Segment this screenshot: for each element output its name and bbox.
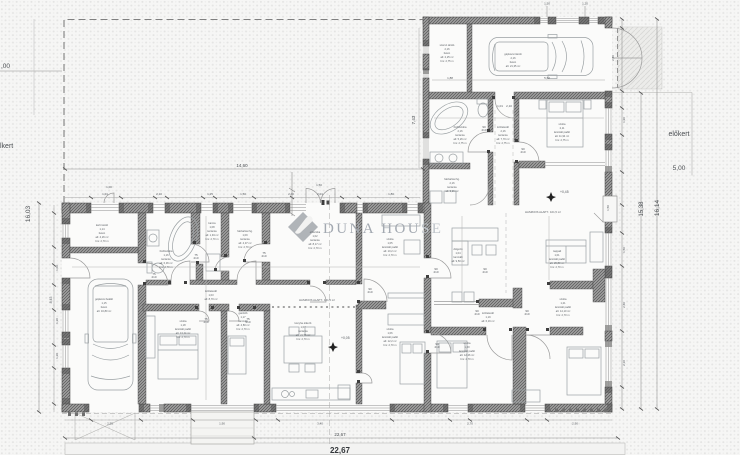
building interior white: upper wing	[423, 17, 612, 213]
svg-text:lkert: lkert	[0, 143, 13, 150]
door: corridor end to bedroom3	[364, 279, 387, 302]
terrace	[191, 412, 254, 444]
door: bedroomE	[526, 335, 550, 359]
wall: lower wing bottom	[62, 404, 89, 412]
svg-text:22,67: 22,67	[330, 446, 351, 455]
svg-text:15,38: 15,38	[639, 201, 645, 217]
boundary dashed	[64, 20, 423, 204]
window: garage top 3	[589, 19, 598, 23]
svg-text:2,40: 2,40	[288, 192, 294, 196]
dim: left 16,03	[38, 203, 40, 412]
wall: living|bedroom3 column	[356, 213, 362, 284]
svg-text:HASZNOS ALAPT.: 101,5 m²: HASZNOS ALAPT.: 101,5 m²	[525, 210, 561, 214]
slider corridor west	[434, 302, 479, 305]
wall: lower wing left	[62, 203, 70, 224]
dim: left inner col	[53, 205, 55, 412]
wall: bath|hall upper	[488, 99, 493, 132]
window: upper left wall	[424, 46, 428, 54]
kitchen counter	[272, 385, 350, 400]
svg-text:210: 210	[151, 275, 156, 279]
tick marks	[37, 18, 659, 440]
dim: bottom 22,67	[65, 437, 618, 439]
svg-text:210: 210	[482, 270, 487, 274]
wall: wc|laundry lower	[221, 213, 229, 257]
door: garage double to driveway	[612, 28, 642, 88]
bed 2	[228, 336, 246, 374]
svg-text:8,45: 8,45	[49, 297, 53, 304]
dim: garage left 7,43	[418, 28, 420, 168]
svg-text:210: 210	[474, 312, 479, 316]
washbasin upper	[430, 152, 463, 164]
front yard line vertical	[691, 93, 693, 176]
bed D	[437, 341, 467, 388]
svg-text:1,01: 1,01	[497, 104, 503, 108]
door: hall to bath upper	[468, 132, 488, 152]
wall: carport right	[138, 213, 146, 263]
door: bedroom2	[229, 311, 239, 321]
svg-text:2,40: 2,40	[611, 55, 615, 61]
wall: lower wing top	[62, 203, 91, 213]
shower wc room	[206, 254, 220, 271]
door: carport to bath lower	[146, 263, 168, 285]
svg-text:1,50: 1,50	[622, 247, 626, 253]
driveway hatch front of garage	[618, 27, 662, 89]
window: upper right wall	[606, 108, 611, 134]
driveway apron carport	[75, 413, 135, 440]
section dash line	[329, 195, 331, 445]
wall: hall|bedroom upper	[514, 99, 519, 142]
logo diamond	[288, 212, 318, 242]
window: lower top wall	[91, 205, 119, 211]
svg-text:1,20: 1,20	[55, 353, 59, 359]
wall: central spine	[424, 203, 431, 258]
dim: garage inner line	[432, 79, 605, 81]
svg-text:,00: ,00	[1, 63, 10, 70]
north arrow upper	[546, 192, 556, 202]
svg-text:2,10: 2,10	[622, 360, 626, 366]
wall: bedroom3 north chunk	[358, 301, 386, 309]
svg-text:210: 210	[433, 270, 438, 274]
svg-text:1,50: 1,50	[316, 183, 322, 187]
text: top mini labels	[55, 2, 626, 426]
wall: bath|wc lower	[191, 213, 200, 244]
svg-text:1,50: 1,50	[544, 2, 550, 6]
svg-text:1,50: 1,50	[240, 192, 246, 196]
door: spine to study	[431, 258, 451, 278]
window: garage top 1	[540, 19, 548, 23]
dim: 14,60 garden	[65, 168, 423, 170]
svg-text:1,20: 1,20	[55, 318, 59, 324]
window: lower right wall	[606, 233, 611, 266]
svg-text:210: 210	[524, 312, 529, 316]
bed 1	[158, 334, 198, 379]
garage door dashed line	[617, 28, 619, 88]
study desk	[452, 228, 498, 302]
wall: corridor south left segment	[431, 327, 486, 335]
tread ticks bottom right	[68, 409, 607, 417]
wall: bedrooms north lower-left	[143, 304, 199, 311]
door: corridor door wc	[237, 261, 256, 280]
door: side door left wall	[70, 258, 90, 278]
dim: right columns	[621, 19, 623, 409]
dotted ceiling line living	[272, 306, 356, 308]
wall: bedroom2|living	[264, 311, 270, 404]
pavement strip bottom	[65, 443, 625, 455]
wardrobe bedroom1	[146, 316, 155, 358]
window: lower left wall	[63, 224, 68, 238]
washer laundry upper	[430, 191, 442, 203]
svg-text:1,00: 1,00	[106, 185, 112, 189]
door: hall to bedroom upper	[519, 142, 539, 162]
svg-text:HASZNOS ALAPT.: 101,5 m²: HASZNOS ALAPT.: 101,5 m²	[299, 298, 335, 302]
dim: garage top ticks	[547, 6, 585, 17]
svg-text:2,10: 2,10	[506, 104, 512, 108]
svg-text:210: 210	[367, 290, 372, 294]
svg-text:210: 210	[193, 256, 198, 260]
svg-text:3,40: 3,40	[317, 422, 323, 426]
wall: garage top	[423, 17, 540, 24]
svg-text:+0,05: +0,05	[341, 336, 350, 340]
svg-text:7,43: 7,43	[411, 115, 416, 124]
svg-text:1,25: 1,25	[207, 192, 213, 196]
door: bedroomD	[487, 335, 512, 360]
wall: corridor north	[146, 280, 171, 285]
wall: bedroom south upper	[519, 161, 545, 168]
svg-text:14,60: 14,60	[236, 163, 248, 168]
svg-text:1,80: 1,80	[388, 192, 394, 196]
svg-text:16,03: 16,03	[25, 205, 32, 222]
sofa living	[546, 232, 603, 263]
washbasin lower	[147, 230, 159, 246]
wall: laundry|hall lower	[262, 213, 270, 244]
svg-text:210: 210	[261, 254, 266, 258]
svg-text:1,20: 1,20	[622, 117, 626, 123]
svg-text:16,14: 16,14	[654, 199, 661, 216]
cabinet room C	[388, 293, 424, 298]
dim: top mini row	[65, 197, 420, 199]
door: laundry lower	[244, 244, 262, 262]
door: single garden door	[104, 193, 114, 203]
svg-text:5,62: 5,62	[544, 76, 550, 80]
svg-text:210: 210	[434, 345, 439, 349]
window: lower bottom wall	[150, 406, 164, 411]
wall: upper wing right / lower wing right	[605, 17, 612, 28]
wall: bath|laundry upper	[429, 163, 470, 169]
svg-text:1,20: 1,20	[582, 2, 588, 6]
door jamb marks	[143, 96, 550, 383]
wardrobe bedroom3	[388, 314, 424, 325]
door: bath lower	[191, 244, 209, 262]
wardrobe bedroom E	[512, 390, 540, 402]
car in carport	[85, 279, 136, 390]
svg-text:2,90: 2,90	[572, 422, 578, 426]
room C wardrobe	[382, 215, 420, 226]
study dashed edge	[505, 213, 507, 293]
svg-text:1,50: 1,50	[606, 205, 610, 211]
svg-text:2,01: 2,01	[317, 192, 323, 196]
entrance recess right corner	[594, 196, 617, 222]
dim: interior chains	[72, 266, 420, 268]
wall: storage|garage	[467, 24, 472, 92]
bed upper bedroom	[539, 100, 591, 147]
door: garage to hall	[495, 99, 514, 118]
eave dashed bottom	[62, 413, 612, 415]
wall: corridor north right section	[479, 299, 520, 307]
svg-text:210: 210	[481, 128, 486, 132]
svg-text:+0,45: +0,45	[560, 190, 569, 194]
bed 3	[400, 342, 425, 384]
dining table	[284, 327, 322, 372]
wall: below garage	[429, 92, 495, 99]
door: spine to living	[431, 333, 451, 353]
svg-text:1,01: 1,01	[102, 192, 108, 196]
svg-text:DUNA HOUSE: DUNA HOUSE	[323, 221, 443, 237]
wall: living|bedroomE	[550, 281, 593, 289]
north arrow lower	[328, 342, 338, 352]
car in garage	[489, 35, 593, 79]
svg-text:2,10: 2,10	[156, 192, 162, 196]
door: hall to lower wing	[470, 186, 489, 205]
bathtub upper	[424, 95, 473, 140]
svg-text:2,40: 2,40	[622, 302, 626, 308]
front yard line horizontal	[612, 92, 692, 94]
wall: room A bottom	[70, 247, 138, 253]
svg-text:22,67: 22,67	[334, 432, 346, 437]
glass partition bedroom south	[545, 163, 605, 166]
wall: bedroom1|bedroom2	[221, 311, 227, 404]
toilet lower	[147, 262, 164, 273]
toilet upper	[477, 99, 489, 117]
svg-text:5,00: 5,00	[673, 165, 686, 172]
svg-text:előkert: előkert	[668, 131, 689, 138]
svg-text:210: 210	[520, 150, 525, 154]
door: wc lower	[215, 257, 229, 271]
wall: stub at corridor	[513, 288, 522, 308]
svg-text:210: 210	[203, 320, 208, 324]
door: bedroom3 inner	[362, 373, 372, 383]
door: corridor door 2	[310, 286, 326, 302]
hall dashes upper	[495, 110, 513, 205]
door: bedroom1	[199, 311, 209, 321]
svg-text:1,00: 1,00	[55, 265, 59, 271]
door handle specks entry	[322, 200, 325, 205]
window: garage top 2	[556, 19, 579, 23]
building interior white: lower wing	[62, 203, 612, 412]
svg-text:1,88: 1,88	[447, 76, 453, 80]
wall jamb pilaster darkening	[62, 17, 612, 412]
bed E	[567, 347, 601, 395]
wall: corner block right	[593, 269, 605, 302]
door: corridor door 1	[171, 261, 190, 280]
svg-text:1,90: 1,90	[219, 422, 225, 426]
wall: bedroomD|bedroomE	[513, 327, 526, 404]
bathtub lower	[163, 213, 203, 265]
svg-text:2,55: 2,55	[107, 422, 113, 426]
door: main entry double (garden)	[306, 189, 335, 204]
svg-text:2,70: 2,70	[467, 422, 473, 426]
wall: upper wing left	[423, 17, 429, 46]
wall: corridor south right segment	[550, 327, 583, 335]
